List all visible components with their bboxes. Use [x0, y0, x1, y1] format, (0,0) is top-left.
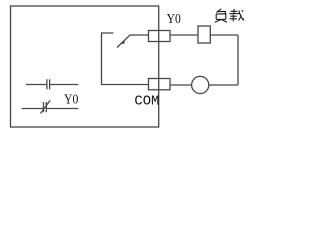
relay contact K movable blade — [117, 35, 130, 48]
svg-text:Y0: Y0 — [64, 92, 79, 107]
wire load to right rail — [210, 34, 238, 36]
terminal COM box — [149, 79, 171, 90]
contact Y0 NC: plates — [43, 102, 45, 112]
relay contact K fixed pole and internal wire to COM — [102, 33, 149, 85]
负 char — [217, 9, 222, 13]
wire power source to terminal COM — [170, 84, 192, 86]
terminal Y0 box — [149, 31, 171, 42]
wire blade to terminal Y0 — [130, 34, 149, 36]
wire right rail to power source — [209, 84, 238, 86]
contact Y0 NO: left wire — [26, 84, 46, 86]
label 负载 (load) drawn as strokes — [215, 9, 244, 22]
contact Y0 NC: right wire — [47, 108, 79, 110]
PLC enclosure box — [11, 6, 159, 127]
载 char — [231, 10, 238, 12]
load box — [198, 26, 210, 43]
svg-text:Y0: Y0 — [167, 11, 182, 26]
wire terminal Y0 to load — [170, 34, 198, 36]
contact Y0 NO: plates — [46, 79, 48, 89]
contact Y0 NC: slash — [41, 100, 51, 113]
power source circle — [192, 76, 209, 93]
svg-text:COM: COM — [134, 94, 159, 110]
contact Y0 NC: left wire — [22, 108, 43, 110]
contact Y0 NO: right wire — [50, 84, 78, 86]
wire right rail vertical — [237, 35, 239, 85]
relay blade arrow dot — [122, 40, 125, 44]
